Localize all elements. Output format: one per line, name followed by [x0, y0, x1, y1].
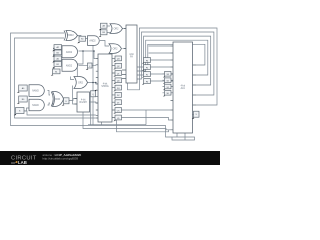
svg-text:NAND: NAND: [32, 104, 39, 107]
svg-text:AND2: AND2: [89, 40, 96, 43]
svg-text:ALU: ALU: [181, 87, 186, 90]
svg-text:OR2: OR2: [113, 49, 118, 51]
svg-text:LAB: LAB: [18, 160, 27, 165]
svg-text:NAND: NAND: [32, 90, 39, 93]
svg-text:AND2: AND2: [66, 64, 73, 67]
svg-text:RG/SH: RG/SH: [80, 102, 88, 104]
svg-text:http://circuitlab.com/cgq6559: http://circuitlab.com/cgq6559: [43, 157, 79, 161]
svg-text:XOR: XOR: [55, 99, 60, 101]
svg-text:XOR2: XOR2: [67, 35, 74, 37]
svg-text:OR2: OR2: [114, 29, 119, 31]
svg-text:OR2: OR2: [78, 83, 83, 85]
svg-text:SH/RG: SH/RG: [101, 86, 108, 88]
svg-text:FA: FA: [130, 56, 133, 59]
svg-text:AND2: AND2: [66, 51, 73, 54]
